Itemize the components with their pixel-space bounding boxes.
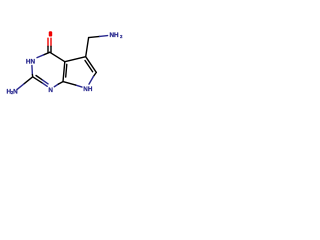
double bond C5=C6 <box>86 57 97 73</box>
bond N7-C7a <box>76 85 82 87</box>
carbonyl double bond C4=O <box>47 38 49 46</box>
bond C4a-C5 <box>65 57 86 62</box>
O label <box>49 31 52 36</box>
bond CH2-NH2 <box>89 36 100 37</box>
bond C6-N7 <box>93 72 96 76</box>
double bond C2=N1 <box>33 77 43 84</box>
bond N1-C7a <box>54 84 58 87</box>
svg-text:N: N <box>48 87 53 94</box>
svg-text:HN: HN <box>26 59 36 66</box>
svg-text:NH: NH <box>110 32 120 39</box>
bond C4-C4a <box>50 52 65 62</box>
fusion double bond C4a=C7a <box>63 62 65 82</box>
svg-text:NH: NH <box>83 86 93 93</box>
bond C4-N3 <box>43 52 49 55</box>
bond C5-CH2 <box>86 38 89 57</box>
svg-text:N: N <box>13 89 18 96</box>
bond N3-C2 <box>31 66 34 75</box>
bond C2-NH2(left) <box>24 77 33 84</box>
